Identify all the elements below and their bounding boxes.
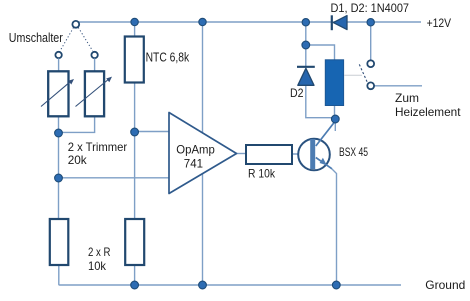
- transistor Q1 collector stroke: [316, 121, 336, 146]
- wire node A down to node B: [58, 133, 60, 178]
- trimmer P1 body: [48, 71, 68, 116]
- svg-text:BSX 45: BSX 45: [339, 145, 368, 159]
- switch S1 dashed lever left: [60, 28, 74, 52]
- wire transistor emitter down to ground rail: [332, 169, 337, 286]
- trimmer P1 arrow: [41, 81, 72, 107]
- transistor Q1 base bar: [310, 139, 315, 169]
- node NTC junction: [131, 128, 139, 136]
- wire throw left to trimmer P1: [58, 58, 60, 71]
- resistor R2 body: [50, 219, 69, 265]
- node ground-supply junction: [199, 281, 207, 289]
- svg-text:Heizelement: Heizelement: [395, 105, 461, 119]
- svg-text:Umschalter: Umschalter: [9, 30, 64, 45]
- op-amp U1: [169, 113, 237, 194]
- relay K1 coil: [325, 60, 343, 106]
- node D junction: [331, 115, 339, 123]
- transistor Q1 body circle: [298, 139, 330, 171]
- node ground-emitter junction: [332, 281, 340, 289]
- node C junction: [302, 41, 310, 49]
- switch S1 throw terminal right: [91, 52, 97, 58]
- wire relay contact bottom to heater output: [374, 85, 422, 87]
- svg-text:NTC 6,8k: NTC 6,8k: [146, 51, 190, 65]
- relay contact terminal bottom: [367, 82, 374, 89]
- trimmer P2 body: [85, 71, 104, 116]
- wire top rail +12V: [79, 21, 421, 23]
- wire trimmer P2 bottom to node A: [59, 116, 95, 132]
- wire R1 to transistor base: [292, 153, 310, 155]
- wire NTC bottom to node: [134, 83, 136, 133]
- node rail-D1 right junction: [367, 19, 374, 26]
- wire resistor R3 bottom to ground rail: [134, 265, 136, 285]
- wire node B to op-amp inverting input: [59, 177, 170, 179]
- wire trimmer P1 bottom: [58, 116, 60, 133]
- resistor NTC body: [125, 37, 144, 83]
- wire +12V rail down to node C: [305, 22, 307, 45]
- node rail-NTC junction: [131, 18, 138, 25]
- transistor Q1 emitter stroke: [316, 158, 332, 169]
- node rail-D1 left junction: [302, 19, 309, 26]
- wire node to op-amp noninverting input: [135, 131, 169, 133]
- svg-text:R 10k: R 10k: [248, 167, 276, 181]
- node B junction: [55, 174, 63, 182]
- resistor R3 body: [125, 219, 144, 265]
- wire node B down to resistor R2: [58, 178, 60, 219]
- svg-text:2 x Trimmer: 2 x Trimmer: [68, 140, 128, 154]
- relay contact lever dashed: [359, 64, 367, 82]
- svg-text:+12V: +12V: [427, 16, 452, 30]
- switch S1 pole terminal: [72, 21, 79, 28]
- wire node C to relay top: [306, 45, 335, 60]
- svg-text:10k: 10k: [88, 259, 107, 273]
- node rail-supply junction: [199, 18, 206, 25]
- relay contact mechanical link: [344, 74, 362, 76]
- svg-text:D2: D2: [290, 86, 304, 100]
- svg-text:20k: 20k: [68, 153, 88, 167]
- node ground-R3 junction: [131, 281, 139, 289]
- wire op-amp output to R1: [237, 153, 247, 155]
- node A junction: [55, 129, 63, 137]
- wire D2 anode to node D: [306, 86, 336, 118]
- svg-text:2 x R: 2 x R: [88, 245, 111, 259]
- wire op-amp supply V+: [202, 22, 204, 134]
- diode D1 cathode bar: [331, 15, 333, 30]
- wire relay bottom to node D: [334, 106, 336, 120]
- svg-text:Ground: Ground: [425, 278, 465, 292]
- wire op-amp supply V-: [202, 174, 204, 286]
- svg-text:OpAmp: OpAmp: [176, 143, 215, 157]
- switch S1 throw terminal left: [55, 52, 61, 58]
- svg-text:D1, D2: 1N4007: D1, D2: 1N4007: [331, 1, 410, 15]
- wire node D to transistor collector: [334, 119, 336, 131]
- wire throw right to trimmer P2: [94, 58, 96, 71]
- svg-text:741: 741: [184, 157, 204, 171]
- resistor R1 body: [246, 145, 292, 164]
- wire ground rail: [59, 265, 401, 285]
- transistor Q1 emitter arrowhead: [320, 158, 327, 165]
- wire node C down to D2: [305, 45, 307, 66]
- wire node down to resistor R3: [134, 132, 136, 219]
- wire rail to relay contact top: [370, 22, 372, 60]
- wire NTC column top: [134, 22, 136, 37]
- relay contact terminal top: [367, 60, 374, 67]
- diode D2 cathode bar: [297, 66, 315, 68]
- switch S1 dashed lever right: [78, 28, 92, 52]
- diode D1 body: [333, 16, 347, 30]
- diode D2 body: [298, 68, 314, 85]
- svg-text:Zum: Zum: [395, 91, 419, 105]
- trimmer P2 arrow: [76, 79, 110, 107]
